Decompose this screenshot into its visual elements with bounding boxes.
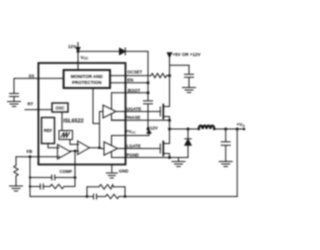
svg-text:FB: FB (27, 149, 33, 154)
svg-text:RT: RT (28, 101, 34, 106)
svg-text:ISL6522: ISL6522 (63, 118, 83, 124)
svg-text:12V: 12V (68, 44, 77, 49)
svg-text:PROTECTION: PROTECTION (72, 80, 102, 85)
svg-text:SS: SS (29, 73, 35, 78)
svg-text:+12V: +12V (148, 126, 158, 131)
svg-text:OSC: OSC (55, 106, 64, 111)
svg-text:+VO: +VO (237, 122, 246, 128)
svg-text:MONITOR AND: MONITOR AND (71, 74, 104, 79)
svg-text:PGND: PGND (127, 152, 139, 157)
svg-text:COMP: COMP (60, 169, 73, 174)
svg-text:PVCC: PVCC (126, 129, 137, 135)
svg-text:VCC: VCC (81, 55, 89, 61)
svg-text:GND: GND (119, 169, 129, 174)
svg-text:LGATE: LGATE (127, 143, 141, 148)
svg-text:BOOT: BOOT (128, 88, 141, 93)
svg-text:UGATE: UGATE (127, 106, 142, 111)
svg-text:EN: EN (127, 78, 133, 83)
svg-text:+5V OR +12V: +5V OR +12V (173, 52, 201, 57)
svg-text:PHASE: PHASE (126, 115, 141, 120)
svg-text:REF: REF (44, 128, 53, 133)
svg-text:OCSET: OCSET (127, 70, 142, 75)
